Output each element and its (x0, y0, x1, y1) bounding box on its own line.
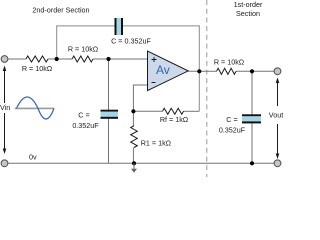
svg-text:0.352uF: 0.352uF (72, 121, 99, 130)
resistor R = 10k (second) (72, 56, 93, 62)
svg-text:0.352uF: 0.352uF (219, 126, 246, 135)
resistor Rf = 1k (163, 108, 184, 114)
sine wave source symbol (15, 97, 54, 119)
terminal input top (1, 56, 8, 63)
Rf branch junction (131, 109, 135, 113)
svg-text:R = 10kΩ: R = 10kΩ (22, 64, 53, 73)
node A junction (55, 57, 59, 61)
node B junction (106, 57, 110, 61)
svg-text:0v: 0v (29, 153, 37, 162)
resistor R1 = 1k (vertical) (131, 126, 138, 148)
svg-text:C = 0.352uF: C = 0.352uF (111, 36, 151, 45)
svg-text:Vin: Vin (0, 103, 10, 112)
svg-text:Section: Section (236, 9, 260, 18)
output node junction (197, 69, 201, 73)
svg-text:Rf = 1kΩ: Rf = 1kΩ (160, 115, 189, 124)
svg-text:R = 10kΩ: R = 10kΩ (68, 45, 99, 54)
section divider dashed line (206, 0, 208, 177)
svg-text:C =: C = (226, 115, 237, 124)
terminal output top (274, 68, 281, 75)
1st-order node junction (250, 69, 254, 73)
wire op-amp output (188, 70, 216, 72)
Vout arrow line (276, 78, 280, 160)
svg-text:C =: C = (78, 111, 89, 120)
wire inverting input branch (133, 85, 147, 126)
svg-text:Av: Av (156, 63, 170, 77)
op-amp U1 Av (148, 51, 189, 91)
wire node B riser down to cap and ground (108, 59, 110, 163)
bottom rail junction at right cap (250, 161, 254, 165)
Vin arrow line (3, 66, 7, 155)
svg-text:R = 10kΩ: R = 10kΩ (214, 57, 245, 66)
svg-text:Vout: Vout (269, 111, 283, 120)
resistor R = 10k (first) (26, 56, 48, 62)
wire right cap riser (251, 71, 253, 163)
capacitor C = 0.352uF (node B to ground) (101, 110, 119, 119)
svg-text:2nd-order Section: 2nd-order Section (32, 5, 89, 14)
bottom rail junction at R1 (132, 161, 136, 165)
terminal output bottom (274, 160, 281, 167)
resistor R = 10k (1st-order) (217, 68, 237, 74)
wire feedback loop: node A riser, top run, right drop (57, 26, 200, 111)
wire 0v bottom rail (8, 162, 274, 164)
svg-text:R1 = 1kΩ: R1 = 1kΩ (141, 139, 172, 148)
wire main input row (8, 58, 26, 60)
capacitor C = 0.352uF (top, feedback) (115, 18, 124, 35)
wire Rf run (133, 110, 162, 112)
capacitor C = 0.352uF (1st-order) (242, 114, 261, 123)
ground arrow (131, 163, 137, 173)
terminal input bottom (1, 160, 8, 167)
